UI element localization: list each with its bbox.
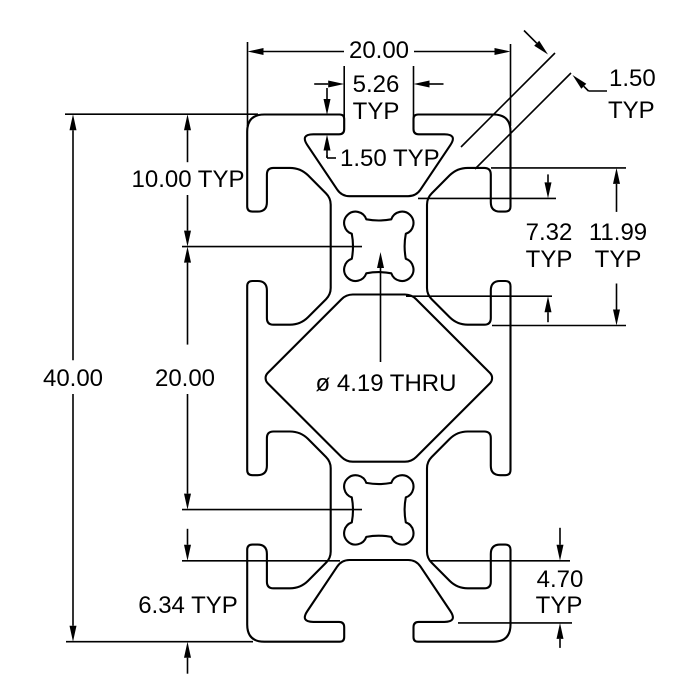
svg-text:11.99: 11.99 — [589, 219, 647, 246]
svg-text:10.00 TYP: 10.00 TYP — [132, 166, 245, 193]
dim 40.00: extension lines — [65, 113, 258, 115]
dim 6.34 TYP: arrows — [184, 545, 191, 561]
svg-text:20.00: 20.00 — [155, 365, 215, 392]
dim 4.70 TYP: arrows — [557, 545, 564, 561]
dim 5.26 TYP: extension lines — [343, 66, 345, 130]
dim 5.26 TYP: arrows — [328, 81, 344, 88]
svg-text:TYP: TYP — [595, 246, 642, 273]
svg-text:5.26: 5.26 — [353, 71, 400, 98]
dim 20.00 left: dimension line + arrows — [184, 247, 191, 263]
boss 2 center leader — [182, 509, 362, 511]
dim 7.32 TYP: extension lines — [418, 197, 556, 199]
dim 7.32 TYP: arrows — [545, 182, 552, 198]
dim 6.34 TYP: extension line — [182, 560, 340, 562]
dim 40.00: dimension line + arrows — [70, 114, 77, 130]
svg-text:TYP: TYP — [608, 97, 655, 124]
screw boss hole lower — [344, 475, 413, 544]
svg-text:ø 4.19 THRU: ø 4.19 THRU — [316, 370, 457, 397]
dim 1.50 TYP top-right: leader lines — [461, 53, 555, 147]
central octagonal cavity — [266, 295, 493, 462]
dim 4.70 TYP: extension lines — [430, 560, 570, 562]
svg-text:40.00: 40.00 — [43, 365, 103, 392]
svg-text:TYP: TYP — [353, 98, 400, 125]
leader 4.19 THRU: arrow — [377, 252, 384, 268]
dim 11.99 TYP: extension lines — [491, 167, 626, 169]
svg-text:TYP: TYP — [526, 246, 573, 273]
dim 11.99 TYP: arrows — [613, 168, 620, 184]
svg-text:TYP: TYP — [536, 592, 583, 619]
boss 1 center leader — [182, 246, 362, 248]
screw boss hole upper — [344, 212, 413, 281]
dim 20.00 top: extension lines — [247, 42, 249, 126]
svg-text:1.50 TYP: 1.50 TYP — [340, 145, 440, 172]
svg-text:20.00: 20.00 — [349, 37, 409, 64]
dim 1.50 TYP top-center: arrows — [324, 99, 331, 115]
svg-text:7.32: 7.32 — [526, 219, 573, 246]
svg-text:1.50: 1.50 — [609, 65, 656, 92]
dim 10.00 TYP: dimension line + arrows — [184, 114, 191, 130]
dim 1.50 TYP top-right: arrows — [534, 41, 548, 55]
svg-text:4.70: 4.70 — [537, 566, 584, 593]
svg-text:6.34 TYP: 6.34 TYP — [138, 592, 238, 619]
dim 20.00 top: dimension line + arrows — [264, 51, 345, 53]
extrusion profile outer outline with T-slots — [247, 115, 510, 642]
